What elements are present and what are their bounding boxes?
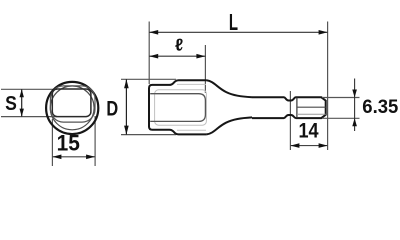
- collar faint edge top: [177, 83, 206, 85]
- svg-text:D: D: [106, 97, 118, 120]
- svg-text:14: 14: [298, 119, 318, 143]
- 6.35 extension line top: [322, 97, 360, 99]
- left extension line (L and l): [148, 22, 150, 85]
- svg-text:L: L: [229, 10, 238, 36]
- front view inner rim circle: [50, 86, 94, 130]
- l dimension line: [149, 55, 205, 57]
- S extension line top: [1, 88, 57, 90]
- 15 extension line right: [94, 116, 96, 166]
- 14 dimension line: [290, 145, 327, 147]
- D dimension line: [125, 79, 127, 134]
- S extension line bottom: [1, 116, 57, 118]
- body taper top: [207, 80, 252, 97]
- 15 dimension line: [52, 156, 95, 158]
- L dimension line: [149, 31, 327, 33]
- square hole lines (side view): [150, 94, 205, 122]
- 15 extension line left: [51, 119, 53, 166]
- 14 extension line left: [289, 91, 291, 150]
- front view outer circle: [46, 82, 98, 134]
- svg-text:6.35: 6.35: [362, 97, 398, 119]
- bore outline faint (side view): [155, 90, 207, 125]
- D extension line top: [121, 78, 176, 80]
- front view bore outline: [50, 86, 95, 122]
- right extension line (L and 14): [327, 22, 329, 151]
- svg-text:S: S: [5, 92, 17, 114]
- 6.35 extension line bottom: [322, 117, 360, 119]
- hex left edge line: [296, 97, 298, 118]
- D extension line bottom: [121, 134, 176, 136]
- hex lower edge line: [297, 113, 326, 115]
- body taper bottom: [207, 117, 252, 134]
- 6.35 dimension line: [354, 79, 356, 132]
- socket body outline: [149, 80, 207, 134]
- l extension line: [204, 45, 206, 93]
- front view square hole: [52, 89, 91, 117]
- svg-text:15: 15: [57, 131, 80, 156]
- hex middle line: [297, 106, 326, 108]
- shank and hex outline: [252, 97, 326, 118]
- svg-text:ℓ: ℓ: [175, 35, 183, 54]
- S dimension arrow: [21, 89, 23, 116]
- collar faint edge bottom: [177, 129, 206, 131]
